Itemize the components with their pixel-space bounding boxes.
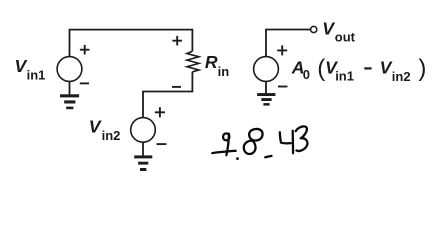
svg-text:V: V xyxy=(380,58,393,78)
svg-text:0: 0 xyxy=(303,67,310,82)
svg-text:in2: in2 xyxy=(392,69,411,84)
svg-text:in2: in2 xyxy=(102,128,121,143)
svg-text:in1: in1 xyxy=(27,67,46,82)
svg-text:(: ( xyxy=(317,55,325,82)
svg-text:): ) xyxy=(418,55,426,82)
svg-text:in1: in1 xyxy=(335,69,354,84)
svg-text:V: V xyxy=(89,117,102,137)
svg-text:V: V xyxy=(15,56,28,76)
svg-text:out: out xyxy=(335,29,356,44)
svg-text:in: in xyxy=(218,64,230,79)
svg-text:R: R xyxy=(205,52,218,72)
svg-text:V: V xyxy=(322,18,335,38)
